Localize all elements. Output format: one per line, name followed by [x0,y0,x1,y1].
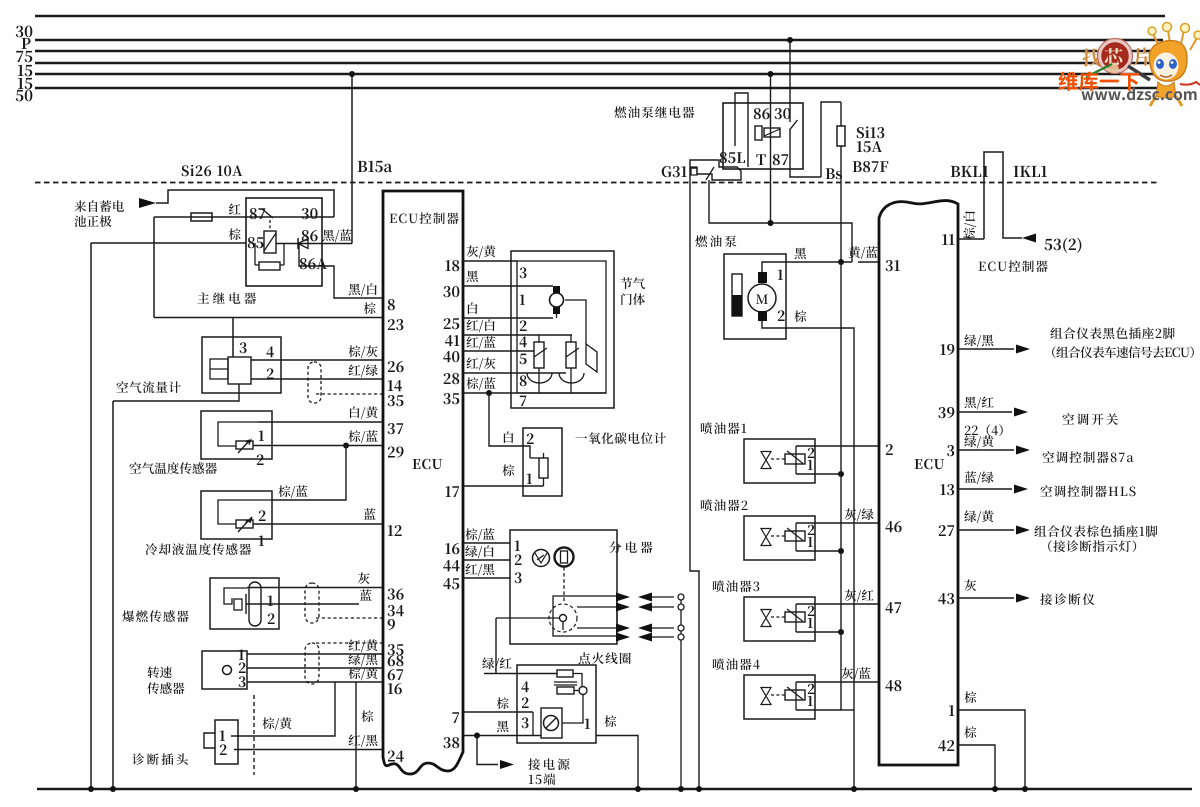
ECU-L pin 16 right edge [445,543,459,554]
injector 1 box [744,439,815,483]
bus label 30 [16,26,32,38]
wire injector2 pin2 to ECU pin46 grey/green [796,522,879,524]
label 53(2) [1045,238,1082,253]
throttle pin 1 [520,294,525,305]
wire label black/white [349,283,377,296]
wire label brown/grey [348,345,377,358]
ground strap G31 [690,160,741,180]
wire battery to relay pin30 [156,190,334,217]
wire ECU25 white [463,317,553,319]
fuel relay pin 87 [773,154,788,165]
injector 1 nozzle [761,452,771,469]
fuel pump label [695,235,736,247]
wire coolant pin1 to ECU pin12 blue [253,523,383,525]
fuel relay pin 86 [754,108,770,119]
wire brown to relay pin85 [91,242,246,244]
injector 1 bracket [795,446,797,474]
fuel pump pin 1 [778,269,783,280]
wire injector4 pin1 to bus [796,709,841,711]
wire pump pin1 black [762,262,852,272]
ignition coil label [578,652,630,664]
ECU-L pin 38 right edge [443,737,459,748]
interface rectangle [984,152,1022,239]
injector 4 pin 2 [808,684,815,694]
ECU controller right title [979,260,1048,272]
ground vertical second [112,401,114,789]
wire ECU13 blue/green to AC controller HLS [958,488,1012,490]
wire air temp pin2 to ECU pin29 brown/blue [253,445,383,447]
throttle resistor 2 [570,335,572,342]
fuse label Si26 10A [182,165,243,176]
ECU-R pin 13 right edge [940,484,954,495]
battery feed arrow [139,198,156,208]
throttle pin 7 [520,396,526,406]
label Bs [826,168,842,179]
throttle body label [620,277,644,289]
CO potentiometer box [523,428,562,496]
wire ECU44 green/white to pin2 [463,559,510,561]
watermark text weikuyixia [1058,71,1139,90]
air flow shield wire dashed [316,393,383,395]
injector 1 pin 2 [808,448,815,458]
wire green/red vertical [495,618,497,673]
battery feed label [74,200,124,212]
ECU-R pin 48 [885,680,901,691]
coolant sensor label [145,543,251,555]
distributor cap dashed circle [549,604,577,632]
injector 3 pin 2 [808,606,815,616]
wire ECU17 brown [463,485,544,487]
diag plug bracket [204,733,215,748]
wire ECU1 brown to ground [958,710,1025,789]
G31 vertical to ground rail [690,168,699,789]
bus label 15 [18,65,32,77]
speed sensor pin 1 [239,649,244,660]
wire diag pin1 brown/yellow [231,682,335,736]
fuse Si13 [840,102,842,126]
spark wire row2 [577,606,620,608]
ECU-R pin 27 right edge [939,525,954,536]
watermark mascot [1148,23,1200,107]
ECU-L pin 37 [388,423,404,434]
ignition coil pin 3 [522,717,529,728]
wire ECU43 grey to diagnostic tester [958,597,1014,599]
air flow meter box [202,337,281,393]
throttle bottom arcs [527,373,552,383]
wire pump pin2 brown to ground [762,321,854,789]
CO pot pin 2 [527,433,534,444]
ignition coil box [517,665,596,743]
ground junction x=995 [992,786,998,792]
ECU right small label [915,459,945,470]
ECU-R pin 19 right edge [940,344,954,355]
speed sensor pin 3 [239,676,246,687]
coil HT terminal circle [579,687,587,695]
main relay resistor [259,262,280,270]
speed shield dashed to pin35 [316,642,383,644]
wire green/red horizontal [484,673,557,675]
label G31 [662,166,687,177]
wire coil pin1 brown to ground [596,736,638,790]
wire label red/green [349,364,378,377]
ECU-L pin 35 right edge [443,393,459,404]
ground junction x=1025 [1022,786,1028,792]
ECU-L pin 40 right edge [443,351,459,362]
wire diag pin2 to ECU pin24 red/black [234,749,383,751]
ECU-L pin 17 right edge [445,486,459,497]
ECU-L pin 36 [388,589,404,600]
ECU-L pin 24 [388,751,404,762]
wire ECU39 black/red to AC switch [958,411,1012,413]
wire brown to ECU pin23 [154,317,383,319]
spark wire row4 [617,636,620,638]
ECU-L pin 26 [388,361,404,372]
injector 3 solenoid [785,612,805,622]
ECU-L pin 14 [388,380,402,391]
node label IKL1 [1014,166,1047,177]
injector 4 dashed link [771,694,785,696]
main relay pin 86 [302,230,318,241]
ECU-L pin 18 right edge [445,260,459,271]
distributor label [609,541,652,553]
ECU controller right box [879,201,958,765]
knock sensor label [122,610,188,622]
wire ECU28 red/grey [463,372,566,374]
injector supply bus vertical [840,262,842,710]
wire junction down to coolant sensor [272,446,346,501]
injector 1 pin 1 [808,460,813,470]
distributor inner box [553,596,617,636]
throttle wiper 2 [566,348,579,357]
ECU-R pin 43 right edge [938,593,954,604]
bus label 15 [18,78,32,90]
ground junction x=113 [110,786,116,792]
throttle body inner box [517,261,606,393]
injector 3 dashed link [771,616,785,618]
wire speed pin3 to ECU pin16 brown/yellow [247,681,383,683]
wire fuse down to yellow/blue junction [840,146,842,262]
injector 3 label [713,580,759,592]
ECU-L pin 29 [388,447,404,458]
CO pot pin 1 [527,473,532,484]
injector bus jog to ground [841,709,854,711]
air flow meter pin 2 [267,368,274,379]
distributor box [510,530,617,644]
wire air flow ground [113,384,239,401]
ECU-R pin 31 [886,260,900,271]
distributor pin 1 [515,540,520,551]
throttle wiper 1 [534,348,547,357]
injector 2 solenoid [785,531,805,541]
wire ECU11 to interface [958,238,984,240]
wire ECU19 green/black to instrument cluster [958,348,1014,350]
injector 2 bracket [795,523,797,551]
throttle resistor 1 [538,335,540,342]
wire ECU40 red/blue [463,350,534,352]
ECU-R pin 1 right edge [949,705,954,716]
wire injector3 pin1 to bus [796,631,841,633]
air temp pin 2 [257,454,264,465]
fuel relay coil wire from bus15 [770,74,772,223]
diag plug pin 2 [220,744,227,755]
spark wire row3 [577,627,620,629]
speed sensor pin 2 [239,662,246,673]
fuel relay coil [755,126,762,140]
coolant sensor inner loop [218,500,272,524]
fuel relay switch wire from busP [789,40,791,122]
ECU-R pin 3 right edge [947,445,954,456]
wire ECU7 brown to coil pin2 [463,711,533,713]
main relay pin 86A [300,258,327,269]
wire ECU35 branch white to CO pin2 [489,393,530,458]
wire ECU45 red/black to pin3 [463,577,510,579]
wire ECU3 green/yellow to AC controller 87a [958,449,1014,451]
junction air temp / coolant [343,443,349,449]
ECU-L pin 67 [388,669,404,680]
coil distributor cap inner box [541,708,562,738]
watermark url www.dzsc.com [1081,88,1196,101]
air temp thermistor [236,441,253,449]
node label BKL1 [951,166,989,177]
wire ECU27 green/yellow to cluster brown socket [958,529,1014,531]
ECU left small label [413,459,443,470]
fuel pump tank symbol [732,274,742,316]
wire ECU30 black [463,285,553,287]
wire B15a vertical [351,74,353,244]
CO potentiometer label [576,432,666,444]
throttle pin 8 [520,375,527,386]
ECU-R pin 2 [886,444,893,455]
power bus line 15b [35,73,1160,76]
wire speed pin2 to ECU pin67 green/black [247,667,383,669]
junction yellow/blue [838,259,844,265]
fuse on red wire [191,213,212,221]
label B87F [853,161,889,172]
throttle motor feed wire [565,300,586,344]
wire speed pin1 to ECU pin68 red/yellow [247,653,383,655]
knock connector [305,583,319,623]
injector 2 label [701,499,748,511]
air flow meter label [116,381,180,393]
injector 2 pin 1 [808,537,813,547]
wire label black/blue [323,229,352,242]
ECU-L pin 41 right edge [445,335,459,346]
injector 2 box [744,516,815,560]
fuel relay T wire to pump loop [709,180,852,262]
fuel relay pin T [756,154,765,165]
throttle pin 3 [520,267,527,278]
ground junction x=356 [353,786,359,792]
vertical label brown/white [963,211,976,239]
ground junction x=854 [851,786,857,792]
ECU-L pin 23 [388,319,404,330]
junction dot terminal 15 [474,733,480,739]
injector 4 solenoid [785,690,805,700]
fuel relay 85L loop [735,93,748,167]
main relay pin 85 [248,237,264,248]
wire to terminal 15 arrow [477,736,498,765]
knock sensor box [210,578,279,629]
distributor pin 3 [515,572,522,583]
ECU-L pin 7 right edge [452,712,459,723]
main relay pin 30 [302,208,318,219]
bus label P [22,38,31,49]
wire air temp pin1 to ECU pin37 white/yellow [258,421,383,423]
wire green/red to cap [496,617,559,619]
wire knock pin2 blue [246,603,359,605]
fuel pump box [724,254,786,339]
injector 4 label [713,658,760,670]
ECU-L pin 34 [388,605,404,616]
knock sensor element [224,588,247,604]
wire injector3 pin2 to ECU pin47 grey/red [796,603,879,605]
injector 3 nozzle [761,610,771,627]
ECU-R pin 47 [885,602,901,613]
distributor rotor symbol [555,548,574,567]
ignition coil pin 4 [521,681,528,692]
ECU-L pin 45 right edge [443,578,459,589]
ignition coil pin 1 [585,718,590,729]
bus label 75 [16,51,32,62]
fuel pump pin 2 [778,310,785,321]
throttle wiper flag [586,344,597,372]
injector 3 bracket [795,604,797,632]
watermark magnifier [1100,41,1131,72]
main relay box [246,198,322,286]
power bus line 15a [35,62,1160,64]
injector 4 bracket [795,682,797,710]
ECU controller left title [390,212,459,224]
CO pot resistor [539,458,548,478]
wire knock pin1 to ECU pin36 grey [247,587,383,589]
ECU-L pin 35 [388,395,404,406]
knock shield dashed to pin9 [316,617,383,619]
ignition coil pin 2 [522,697,529,708]
injector 2 nozzle [761,529,771,546]
air flow meter pin 3 [240,342,247,353]
speed sensor label [147,666,171,678]
ground rail [37,788,1192,791]
wire air flow pin2 to ECU pin14 [251,378,383,380]
main relay label [197,292,256,304]
arrow to 53(2) [1022,234,1036,243]
air temp sensor box [201,411,272,459]
ground junction x=91 [88,786,94,792]
coolant pin 2 [259,510,266,521]
ECU-L pin 30 right edge [443,286,459,297]
wire Bs riser [821,102,841,177]
wire ECU42 brown to ground [958,745,995,789]
throttle pin 5 [520,354,527,365]
wire 86A to ECU pin8 [299,244,383,298]
air flow connector [308,362,321,403]
wire injector4 pin2 to ECU pin48 grey/blue [796,681,879,683]
ECU-R pin 11 right edge [942,234,954,245]
diag plug pin 1 [220,730,225,741]
distributor pin 2 [515,554,522,565]
ECU-L pin 16 [388,683,402,694]
main relay switch [262,209,273,218]
injector 3 pin 1 [808,618,813,628]
air flow meter pin 4 [266,346,273,357]
diag connector dashed line [253,695,255,775]
fuse boundary dashed line [35,182,1160,184]
injector 2 pin 2 [808,525,815,535]
injector 4 box [744,675,815,719]
wire yellow/blue to ECU pin31 [858,261,879,263]
wire label red [229,203,241,214]
power bus line 75 [35,50,1161,52]
injector 1 label [701,422,746,434]
coil pin2 internal [532,712,534,736]
distributor hall sender symbol [533,550,550,567]
fuel pump relay box [723,103,803,169]
speed sensor box [202,651,247,689]
main relay diode [276,243,352,245]
wire label brown/yellow mid [262,717,291,730]
diagnostic plug label [132,753,188,765]
wire air flow pin4 to ECU pin26 [251,359,383,361]
coil secondary resistor [557,687,574,694]
main relay coil [264,231,276,253]
terminal 15 label [528,758,569,770]
ECU-R pin 46 [885,521,901,532]
power bus line 30 [35,15,1165,18]
fuel relay switch blade [790,120,798,130]
knock pin 1 [268,595,273,606]
label Si13 15A [857,126,885,138]
watermark char pian [1134,47,1152,65]
bus label 50 [16,90,33,102]
watermark char zhao [1083,48,1101,66]
wire label brown/blue 2 [278,485,307,498]
ECU-L pin 68 [388,655,404,666]
ECU-L pin 44 right edge [443,560,459,571]
coolant pin 1 [259,535,264,546]
injector 4 pin 1 [808,696,813,706]
knock pin 2 [268,613,275,624]
fuel pump relay label [614,106,694,118]
ECU-L pin 35 [388,644,404,655]
coolant temp sensor box [201,491,272,539]
wire red fused feed [154,216,334,218]
label 22(4) [965,424,1003,436]
coil core bars [554,681,577,683]
wire injector1 pin1 to bus [796,473,841,475]
wire ECU38 black to coil pin3 [463,735,541,737]
ground junction x=681 [678,786,684,792]
wire injector1 pin2 to ECU pin2 [796,445,879,447]
air flow meter inner sensor [228,357,251,384]
main relay coil circuit [254,243,256,265]
wire label brown pin23 [364,302,376,314]
throttle motor [550,293,564,307]
air temp sensor inner loop [218,422,258,446]
ECU-R pin 39 right edge [938,407,954,418]
injector 1 solenoid [785,454,805,464]
throttle pin 4 [519,336,526,347]
label 85L [720,152,745,163]
relay outer left wire [153,217,155,318]
wire ECU16 brown/blue to distributor pin1 [463,542,510,544]
fuel pump motor [748,284,776,312]
ground bus left vertical [90,243,92,789]
air temp sensor label [129,462,216,474]
node label B15a [358,161,393,173]
ECU controller left box [383,191,463,774]
fuel relay pin 30 [775,108,791,119]
coolant thermistor [236,520,253,528]
